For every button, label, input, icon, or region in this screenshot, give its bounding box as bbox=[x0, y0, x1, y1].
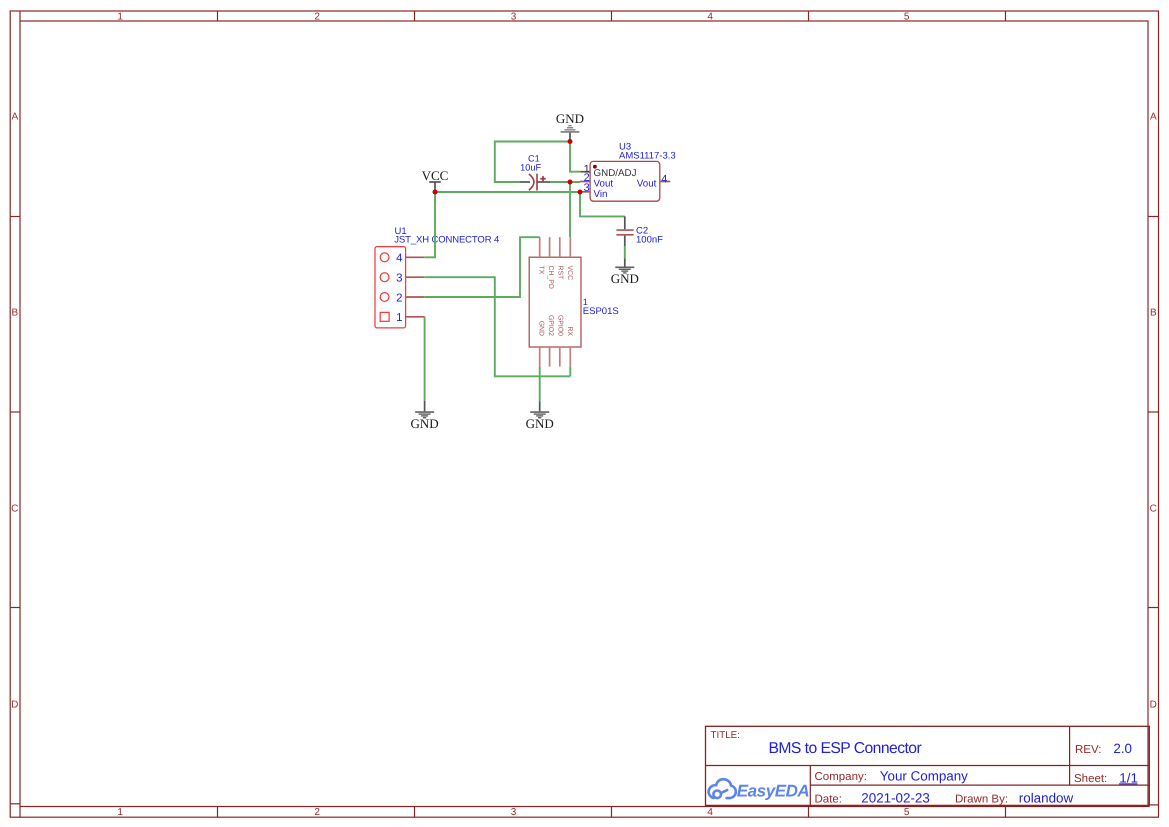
wire ESP01S RX pin down bbox=[569, 367, 571, 377]
svg-text:1: 1 bbox=[396, 312, 402, 324]
svg-text:Company:: Company: bbox=[815, 771, 867, 783]
power port GND under U1 pin 1 bbox=[411, 401, 439, 431]
U3 pin 3 stub bbox=[580, 191, 590, 193]
svg-text:REV:: REV: bbox=[1075, 744, 1101, 756]
wire ESP01S GND pin to GND bbox=[539, 367, 541, 402]
svg-text:2: 2 bbox=[314, 12, 320, 23]
node junction VCC bbox=[433, 190, 438, 195]
svg-text:3: 3 bbox=[396, 273, 402, 285]
svg-text:RST: RST bbox=[557, 266, 564, 281]
power port GND top bbox=[556, 111, 584, 142]
wire GND net to C1 left plate bbox=[495, 142, 570, 183]
wire U1 pin 1 to GND bbox=[424, 317, 426, 401]
svg-text:GND: GND bbox=[526, 416, 554, 431]
U1 pin 2 stub bbox=[406, 296, 424, 298]
ESP01S pin VCC stub bbox=[569, 237, 571, 257]
connector U1 JST_XH bbox=[375, 247, 406, 328]
svg-text:VCC: VCC bbox=[422, 168, 449, 183]
node junction GND/C1 bbox=[568, 139, 573, 144]
svg-text:TX: TX bbox=[537, 266, 544, 275]
wire VCC to U3 pin3 Vin bbox=[435, 191, 580, 193]
title block bbox=[706, 726, 1150, 806]
svg-text:4: 4 bbox=[707, 12, 713, 23]
svg-text:Drawn By:: Drawn By: bbox=[955, 794, 1008, 806]
svg-text:BMS to ESP Connector: BMS to ESP Connector bbox=[769, 740, 922, 757]
svg-text:A: A bbox=[1150, 112, 1157, 123]
svg-text:2: 2 bbox=[314, 807, 320, 818]
svg-text:4: 4 bbox=[661, 173, 667, 185]
svg-text:D: D bbox=[11, 700, 18, 711]
svg-text:ESP01S: ESP01S bbox=[583, 306, 619, 317]
svg-text:3: 3 bbox=[511, 12, 517, 23]
svg-text:4: 4 bbox=[396, 253, 403, 265]
svg-text:5: 5 bbox=[904, 807, 910, 818]
svg-text:GPIO2: GPIO2 bbox=[547, 315, 554, 336]
svg-text:D: D bbox=[1150, 700, 1157, 711]
svg-text:B: B bbox=[1150, 308, 1157, 319]
wire Vin to C2 bbox=[580, 192, 625, 216]
svg-text:3: 3 bbox=[584, 182, 590, 194]
U1 pin 1 stub bbox=[406, 316, 425, 318]
svg-text:CH_PD: CH_PD bbox=[547, 266, 554, 289]
svg-text:JST_XH CONNECTOR 4: JST_XH CONNECTOR 4 bbox=[394, 235, 499, 246]
svg-text:1: 1 bbox=[117, 807, 123, 818]
ESP01S pin GND stub bbox=[539, 347, 541, 367]
module ESP01S bbox=[529, 257, 581, 347]
ESP01S pin GPIO2 stub bbox=[549, 347, 551, 367]
svg-text:1/1: 1/1 bbox=[1119, 771, 1138, 786]
wire U1 pin 3 to ESP01S RX bbox=[424, 277, 570, 376]
wire VCC to U1 pin 4 bbox=[424, 192, 435, 257]
svg-text:GND: GND bbox=[556, 111, 584, 126]
svg-text:GND: GND bbox=[611, 271, 639, 286]
capacitor C2 bbox=[616, 216, 633, 246]
svg-text:10uF: 10uF bbox=[520, 163, 541, 173]
node junction Vin bbox=[578, 190, 583, 195]
svg-text:3: 3 bbox=[511, 807, 517, 818]
EasyEDA logo bbox=[709, 779, 810, 800]
svg-text:Vout: Vout bbox=[637, 178, 657, 189]
net label VCC bbox=[422, 168, 449, 192]
svg-text:GND: GND bbox=[411, 416, 439, 431]
svg-text:GND: GND bbox=[537, 321, 544, 336]
svg-text:2021-02-23: 2021-02-23 bbox=[861, 791, 930, 806]
svg-text:B: B bbox=[11, 308, 18, 319]
regulator U3 bbox=[590, 161, 660, 201]
ESP01S pin RX stub bbox=[569, 347, 571, 367]
wire C2 to GND bbox=[624, 246, 626, 259]
U3 pin 1 stub bbox=[580, 171, 590, 173]
U1 pin 3 stub bbox=[406, 276, 424, 278]
wire GND junction to U3 pin1 bbox=[570, 142, 580, 172]
svg-text:Date:: Date: bbox=[815, 794, 843, 806]
svg-text:TITLE:: TITLE: bbox=[711, 730, 740, 741]
U3 pin 2 stub bbox=[580, 181, 590, 183]
svg-text:C: C bbox=[1150, 504, 1157, 515]
svg-text:AMS1117-3.3: AMS1117-3.3 bbox=[619, 151, 676, 162]
capacitor C1 bbox=[520, 174, 551, 191]
node junction Vout bbox=[568, 180, 573, 185]
svg-text:A: A bbox=[11, 112, 18, 123]
svg-text:2.0: 2.0 bbox=[1113, 741, 1132, 756]
U3 pin 4 stub bbox=[660, 181, 671, 183]
svg-text:C: C bbox=[11, 504, 18, 515]
wire C1 to U3 pin2 bbox=[550, 181, 580, 183]
svg-text:2: 2 bbox=[396, 292, 402, 304]
ESP01S pin CH_PD stub bbox=[549, 237, 551, 257]
svg-text:1: 1 bbox=[117, 12, 123, 23]
svg-text:VCC: VCC bbox=[566, 266, 573, 281]
wire U1 pin 2 to ESP01S TX bbox=[424, 237, 540, 297]
ESP01S pin GPIO0 stub bbox=[559, 347, 561, 367]
svg-text:Vout: Vout bbox=[594, 178, 614, 189]
sheet value 1/1 bbox=[1119, 771, 1138, 786]
svg-text:4: 4 bbox=[707, 807, 713, 818]
svg-text:rolandow: rolandow bbox=[1019, 791, 1074, 806]
svg-text:100nF: 100nF bbox=[636, 235, 663, 246]
power port GND under ESP01S bbox=[526, 402, 554, 432]
svg-text:5: 5 bbox=[904, 12, 910, 23]
svg-text:EasyEDA: EasyEDA bbox=[737, 782, 810, 801]
svg-text:Vin: Vin bbox=[594, 189, 608, 200]
ESP01S pin TX stub bbox=[539, 237, 541, 257]
wire Vout to ESP01S VCC pin bbox=[569, 182, 571, 237]
svg-text:GPIO0: GPIO0 bbox=[557, 315, 564, 336]
ESP01S pin RST stub bbox=[559, 237, 561, 257]
svg-text:Sheet:: Sheet: bbox=[1074, 773, 1107, 785]
svg-text:Your Company: Your Company bbox=[880, 768, 968, 783]
U1 pin 4 stub bbox=[406, 256, 424, 258]
svg-text:RX: RX bbox=[566, 326, 573, 336]
power port GND under C2 bbox=[611, 259, 639, 287]
